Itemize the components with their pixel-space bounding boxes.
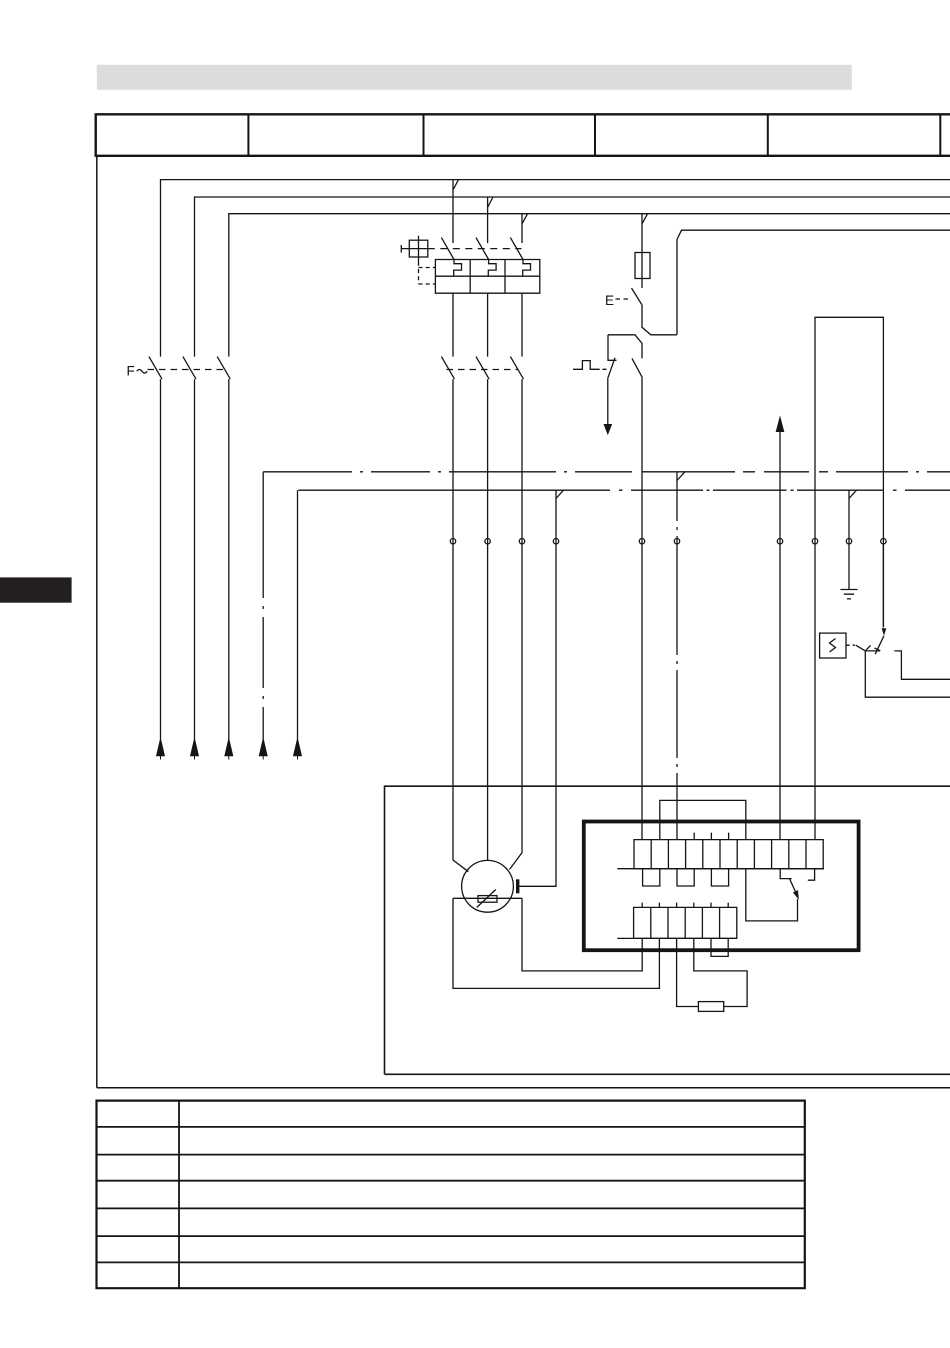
thermistor strike	[477, 890, 496, 908]
thermistor line	[453, 897, 522, 899]
module box	[815, 317, 883, 839]
motor wire U	[453, 379, 468, 872]
control bus N2	[298, 489, 950, 491]
breaker Q pole 3 blade	[510, 238, 523, 260]
terminal circle 11	[812, 539, 817, 544]
supply arrow 3	[225, 739, 233, 760]
breaker Q pole 2 blade	[476, 238, 489, 260]
supply arrow 2	[191, 739, 199, 760]
X1 cell11 stub	[808, 869, 815, 881]
pulse symbol	[573, 361, 607, 370]
breaker Q linkage to overload	[419, 262, 436, 284]
contactor K pole 2 blade	[476, 357, 489, 380]
terminal circle C	[553, 539, 558, 544]
thermostat upper stub wire	[894, 651, 950, 679]
contactor K linkage	[447, 369, 519, 371]
left margin tab	[0, 577, 72, 602]
terminal circle T	[881, 539, 886, 544]
switch E blade	[632, 288, 642, 305]
X1 bottom rail extension	[617, 868, 824, 870]
schematic frame	[97, 157, 950, 1088]
bottom table rows	[97, 1127, 805, 1263]
manual contact stub	[608, 335, 617, 361]
supply arrow 4	[259, 739, 267, 760]
X1 cell9 stub	[780, 869, 791, 879]
terminal strip X1	[634, 840, 823, 869]
contactor K pole 3 blade	[510, 357, 523, 380]
X1 jumper cells 5-6	[711, 869, 728, 886]
phase bus L2	[195, 197, 950, 357]
switch F pole 1 blade	[149, 357, 162, 380]
feeder wire 3	[228, 379, 230, 739]
terminal circle 3	[674, 539, 679, 544]
sensor link dashes	[846, 644, 855, 646]
tap junction L3	[522, 214, 528, 243]
feeder wire 1	[160, 379, 162, 739]
motor wire W	[510, 379, 523, 869]
junction N2 to earth	[849, 490, 857, 498]
junction N1 to riser	[677, 472, 685, 481]
thermostat blade	[875, 636, 884, 654]
up arrow head	[776, 418, 783, 432]
supply arrow 1	[157, 739, 165, 760]
unit enclosure	[385, 786, 950, 1074]
tap junction L2	[488, 197, 493, 243]
control line L4	[677, 230, 950, 335]
header table dividers	[248, 114, 940, 156]
breaker Q actuator	[409, 240, 428, 257]
motor return wire left	[453, 898, 659, 988]
pulse contact blade	[632, 358, 642, 377]
fuse F1	[635, 253, 650, 279]
bottom table divider	[178, 1101, 180, 1289]
X2 cell3 wire to resistor	[677, 938, 699, 1006]
motor return wire right	[522, 898, 642, 971]
supply arrow 5	[294, 739, 302, 760]
wire E to L4 riser	[642, 305, 677, 335]
terminal strip X2	[634, 907, 737, 938]
selector arm	[790, 879, 799, 898]
sensor zigzag	[830, 639, 836, 653]
X2 cell4 wire	[694, 938, 747, 1006]
switch F linkage	[148, 369, 226, 371]
feeder wire 5	[297, 490, 299, 739]
switch F pole 2 blade	[183, 357, 196, 380]
ground	[840, 590, 857, 599]
control wire to X1 cell1	[641, 378, 643, 840]
X2 bottom rail extension	[617, 937, 737, 939]
thermistor body	[478, 896, 497, 903]
resistor R	[698, 1002, 723, 1012]
terminal circle W	[519, 539, 524, 544]
X1 jumper cells 1-2	[643, 869, 660, 886]
down arrow wire	[607, 378, 609, 424]
switch F tilde	[137, 370, 147, 374]
X2 jumper cells 5-6	[711, 938, 728, 956]
motor M1	[462, 860, 514, 912]
down arrow head	[604, 425, 611, 434]
X2 top ticks	[642, 903, 728, 908]
capacitor wire	[519, 490, 556, 886]
X1 top ticks	[694, 833, 728, 840]
capacitor plate	[516, 879, 519, 893]
breaker Q actuator link	[428, 248, 522, 250]
terminal circle earth	[846, 539, 851, 544]
X1 cell7 wire to selector	[746, 869, 798, 921]
bottom table frame	[97, 1100, 805, 1290]
switch F pole 3 blade	[217, 357, 230, 380]
manual contact blade	[608, 358, 615, 379]
selector arm arrowhead	[794, 891, 799, 899]
wire to pulse contact	[608, 335, 642, 359]
X1 jumper cells 3-4	[677, 869, 694, 886]
tap junction L3 to fuse	[642, 214, 648, 288]
control bus N1 dash-dot	[263, 471, 950, 473]
contactor K pole 1 blade	[441, 357, 454, 380]
wire Q to contactor	[453, 293, 522, 356]
phase bus L1	[161, 180, 950, 357]
sensor box	[820, 633, 846, 658]
thermostat blade tick	[875, 648, 881, 651]
control riser dash-dot to X1 cell3	[676, 472, 678, 840]
svg-text:E: E	[605, 293, 614, 308]
breaker Q heater 1	[454, 260, 462, 277]
thermostat wire	[882, 544, 884, 628]
terminal circle U	[450, 539, 455, 544]
junction N2 to capacitor wire	[556, 490, 564, 498]
thermostat fixed contact	[856, 645, 950, 697]
switch E linkage	[616, 298, 630, 300]
header table frame	[96, 113, 950, 157]
earth wire	[848, 490, 850, 589]
breaker Q overload box	[435, 260, 539, 294]
breaker Q pole 1 blade	[441, 238, 454, 260]
title bar	[97, 65, 852, 90]
breaker Q heater 3	[523, 260, 531, 277]
thermostat arrow	[882, 629, 886, 635]
up arrow wire to X1 cell9	[779, 432, 781, 840]
phase bus L3	[229, 214, 950, 357]
terminal circle V	[485, 539, 490, 544]
bridge jumper X1 cell2 to cell7	[660, 800, 746, 839]
terminal circle 1	[639, 539, 644, 544]
terminal circle 9	[777, 539, 782, 544]
feeder wire 4 dash-dot	[262, 472, 264, 740]
terminal box thick border	[584, 822, 859, 951]
svg-text:F: F	[127, 363, 135, 378]
motor wire V	[487, 379, 489, 860]
breaker Q actuator cross	[401, 236, 428, 262]
breaker Q heater 2	[488, 260, 496, 277]
feeder wire 2	[194, 379, 196, 739]
tap junction L1	[453, 180, 459, 243]
